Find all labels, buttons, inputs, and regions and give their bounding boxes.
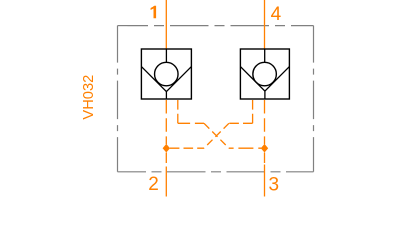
pilot line from left valve: crossing diagonal bbox=[204, 123, 229, 148]
wire: port 3 stub (solid) bbox=[264, 165, 266, 197]
wire: port 2 line below left valve (dashed) bbox=[165, 100, 167, 144]
check valve CV2 (right): body box bbox=[240, 49, 289, 99]
svg-text:2: 2 bbox=[148, 174, 159, 195]
wire: port 1 line (solid) bbox=[165, 0, 167, 49]
check valve CV1: inlet stub bbox=[165, 49, 167, 63]
junction diamond on left main line bbox=[163, 144, 170, 153]
check valve CV2: seat V lines bbox=[240, 67, 289, 92]
pilot line from left valve: vertical drop bbox=[177, 100, 179, 123]
check valve CV2: outlet tail bbox=[264, 91, 266, 99]
check valve CV1: ball bbox=[155, 62, 179, 86]
pilot line from left valve: bottom run to right diamond bbox=[229, 147, 261, 149]
check valve CV2: inlet stub bbox=[264, 49, 266, 63]
pilot line from right valve: vertical drop bbox=[252, 100, 254, 123]
pilot line from right valve: crossing diagonal bbox=[204, 123, 229, 148]
check valve CV2: ball bbox=[253, 62, 277, 86]
check valve CV1 (left): body box bbox=[141, 49, 191, 99]
svg-text:4: 4 bbox=[271, 4, 282, 25]
wire: port 4 line (solid) bbox=[264, 0, 266, 49]
svg-text:VH032: VH032 bbox=[81, 75, 97, 120]
pilot line from left valve: top horizontal run bbox=[178, 122, 204, 124]
pilot line from right valve: bottom run to left diamond bbox=[170, 147, 204, 149]
wire: port 3 line below right valve (dashed) bbox=[264, 100, 266, 144]
svg-text:3: 3 bbox=[269, 174, 280, 195]
check valve CV1: outlet tail bbox=[165, 92, 167, 99]
check valve CV1: seat V lines bbox=[141, 67, 191, 92]
wire: port 2 stub (solid) bbox=[165, 167, 167, 197]
junction diamond on right main line bbox=[261, 144, 268, 153]
wire: port 2 dash below diamond bbox=[165, 153, 167, 164]
pilot line from right valve: top horizontal run bbox=[229, 122, 253, 124]
enclosure border (dash-dot subplate box) bbox=[118, 26, 314, 172]
wire: port 3 dash below diamond bbox=[264, 153, 266, 164]
port 1 label bbox=[151, 6, 157, 18]
